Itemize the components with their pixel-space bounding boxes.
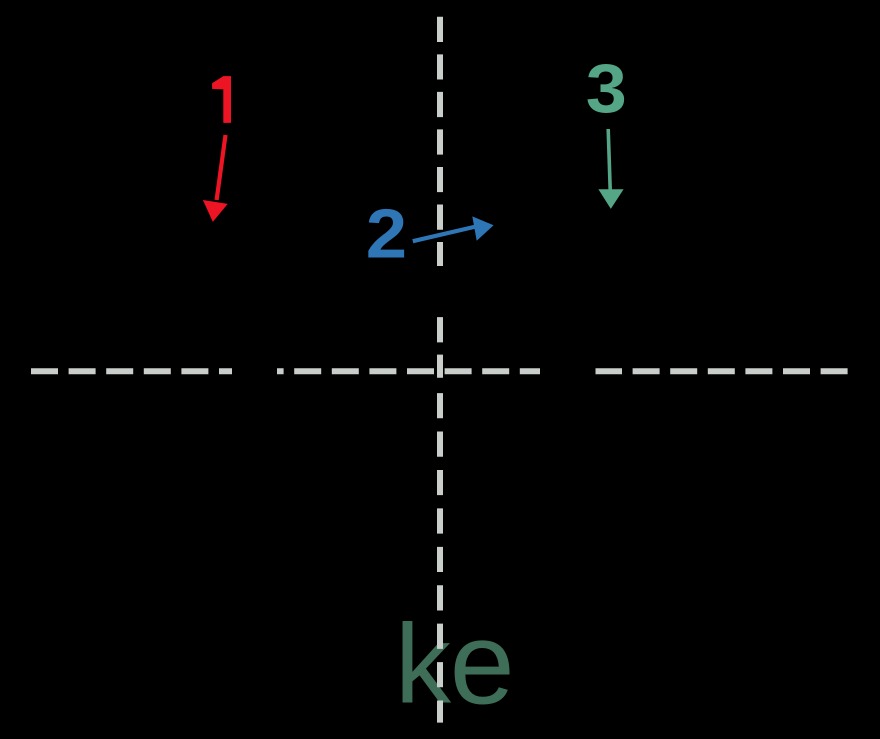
arrow 2 head [472,216,493,240]
horizontal dashed crosshair line [31,368,849,374]
vertical dashed crosshair line (lower part) [437,393,443,722]
label 1 (custom narrow-flag digit) [212,76,231,123]
cover gap 2 on horizontal line [540,364,596,378]
arrow 2 line [413,227,476,242]
svg-text:e: e [450,598,515,729]
arrow 1 head [203,200,228,222]
arrow 1 line [217,135,226,200]
cover gap 1 on horizontal line [232,364,277,378]
vertical dashed crosshair line [437,17,443,378]
svg-text:2: 2 [366,195,407,272]
svg-text:k: k [395,602,452,727]
arrow 3 line [608,129,610,190]
arrow 3 head [598,189,623,209]
svg-text:3: 3 [586,50,627,127]
cover gap on vertical line [433,266,447,316]
